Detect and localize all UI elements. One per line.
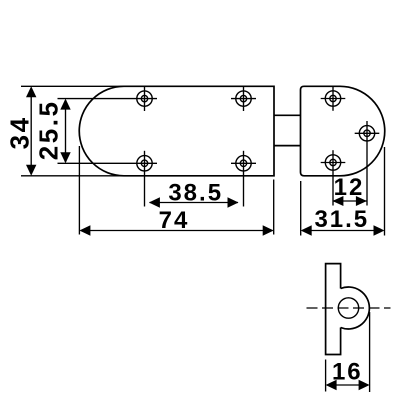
side view pivot hole bbox=[338, 298, 358, 318]
dimension 16 arrow right bbox=[359, 380, 370, 391]
hole H3 body bottom-left bbox=[58, 151, 158, 207]
hinge knuckle link top edge bbox=[274, 114, 301, 116]
dimension 16 arrow left bbox=[326, 380, 337, 391]
dimension 16 line bbox=[327, 384, 368, 386]
dimension 38.5 arrow left bbox=[149, 197, 160, 208]
hole H7 strike plate right bbox=[355, 121, 380, 206]
dimension 31.5 arrow right bbox=[374, 225, 385, 236]
latch body plate (top view, stadium shape) bbox=[79, 86, 274, 176]
dimension 25.5 arrow down bbox=[60, 152, 70, 163]
strike plate (top view, round right end) bbox=[301, 86, 385, 176]
dimension 74 extension line left bbox=[78, 146, 80, 235]
dimension 25.5 line bbox=[65, 100, 67, 162]
svg-text:16: 16 bbox=[332, 358, 363, 385]
svg-text:25.5: 25.5 bbox=[34, 100, 64, 161]
dimension 74 arrow left bbox=[79, 225, 90, 236]
side view centerline bbox=[307, 307, 391, 309]
dimension 38.5 line bbox=[150, 202, 239, 204]
dimension 34 arrow down bbox=[26, 165, 36, 176]
side view plate outline bbox=[326, 264, 341, 355]
hole H6 strike plate bottom-left bbox=[321, 150, 346, 205]
dimension 12 line bbox=[333, 200, 367, 202]
hole H5 strike plate top-left bbox=[321, 86, 346, 111]
svg-text:74: 74 bbox=[159, 207, 190, 234]
svg-text:12: 12 bbox=[334, 174, 365, 201]
hole H4 body bottom-right bbox=[231, 151, 256, 207]
svg-text:31.5: 31.5 bbox=[314, 206, 369, 233]
dimension 16 extension line right bbox=[369, 312, 371, 392]
dimension 16 extension line left bbox=[325, 360, 327, 392]
dimension 31.5 extension line left bbox=[300, 181, 302, 236]
dimension 74 extension line right bbox=[273, 180, 275, 235]
dimension 74 line bbox=[81, 230, 273, 232]
dimension 31.5 arrow left bbox=[301, 225, 312, 236]
svg-text:34: 34 bbox=[5, 115, 35, 149]
dimension 34 extension line top bbox=[21, 85, 124, 87]
dimension 12 arrow right bbox=[356, 196, 367, 206]
hole H1 body top-left bbox=[58, 86, 158, 111]
dimension 34 line bbox=[30, 88, 32, 174]
hole H2 body top-right bbox=[231, 87, 256, 112]
dimension 34 arrow up bbox=[26, 86, 36, 97]
dimension 31.5 line bbox=[302, 230, 383, 232]
hinge knuckle link bottom edge bbox=[274, 145, 301, 147]
dimension 38.5 arrow right bbox=[228, 197, 239, 208]
side view pivot boss arc bbox=[341, 287, 370, 329]
dimension 12 arrow left bbox=[332, 196, 343, 206]
dimension 34 extension line bottom bbox=[21, 175, 124, 177]
dimension 31.5 extension line right bbox=[384, 147, 386, 236]
dimension 74 arrow right bbox=[263, 225, 274, 236]
dimension 25.5 arrow up bbox=[60, 99, 70, 110]
svg-text:38.5: 38.5 bbox=[168, 179, 223, 206]
